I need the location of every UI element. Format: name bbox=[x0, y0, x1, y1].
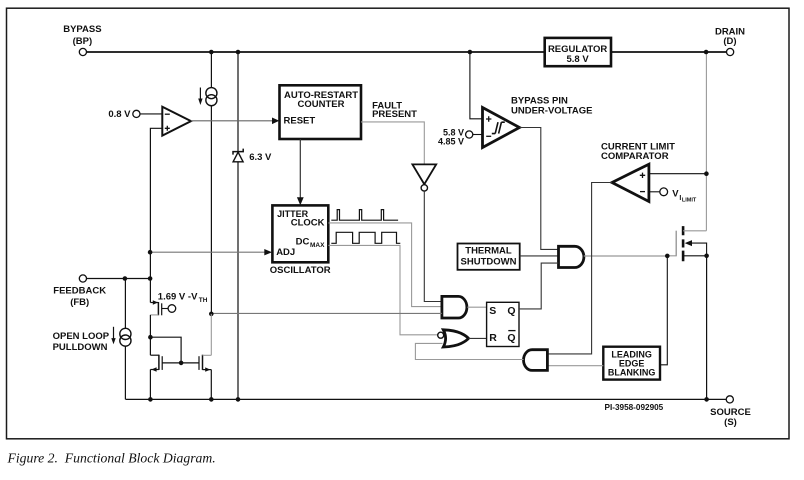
svg-text:OSCILLATOR: OSCILLATOR bbox=[270, 265, 331, 276]
svg-text:OPEN LOOP: OPEN LOOP bbox=[53, 331, 110, 342]
svg-text:LIMIT: LIMIT bbox=[682, 197, 697, 203]
node MOSFET source junction bbox=[704, 254, 709, 259]
label BYPASS PIN UNDER-VOLTAGE bbox=[511, 95, 592, 116]
block oscillator bbox=[270, 205, 331, 275]
svg-text:Q: Q bbox=[507, 305, 515, 317]
node FB enable branch bbox=[209, 312, 214, 317]
wire current limit output bbox=[547, 183, 612, 354]
svg-text:R: R bbox=[489, 332, 497, 344]
wire gate drive to MOSFET bbox=[584, 231, 676, 256]
label FAULT PRESENT bbox=[372, 100, 417, 119]
transistor Q1 output MOSFET bbox=[676, 226, 706, 261]
node mirror gate branches bbox=[148, 335, 153, 340]
node feedback junctions bbox=[123, 276, 128, 281]
wire latch Q to gate-driver AND bbox=[519, 263, 559, 309]
svg-text:V: V bbox=[672, 188, 679, 199]
svg-text:4.85 V: 4.85 V bbox=[438, 137, 464, 147]
wire ADJ input (arrow) bbox=[150, 249, 272, 255]
terminal SOURCE (S) bbox=[710, 396, 751, 428]
wire under-voltage plus input from rail bbox=[470, 52, 483, 119]
wire current limit plus input bbox=[649, 173, 707, 175]
svg-text:6.3 V: 6.3 V bbox=[249, 152, 272, 163]
svg-text:TH: TH bbox=[199, 297, 208, 304]
op-amp 0.8V comparator bbox=[162, 107, 191, 136]
or gate U5 (reset) bbox=[438, 330, 469, 347]
wire bottom source rail bbox=[126, 398, 727, 400]
node bypass rail junctions bbox=[209, 50, 214, 55]
regulator block 5.8 V bbox=[545, 38, 611, 66]
svg-text:COMPARATOR: COMPARATOR bbox=[601, 151, 669, 162]
terminal FEEDBACK (FB) bbox=[53, 275, 150, 308]
svg-text:MAX: MAX bbox=[310, 242, 325, 249]
svg-text:ADJ: ADJ bbox=[276, 247, 295, 258]
node drain junction bbox=[704, 50, 709, 55]
and gate U3 (gate driver) bbox=[559, 246, 584, 267]
svg-text:SHUTDOWN: SHUTDOWN bbox=[461, 256, 517, 267]
node ADJ branch bbox=[148, 250, 153, 255]
transistor Q4 (mirror right) bbox=[181, 314, 211, 400]
wire FB enable to set AND bbox=[211, 312, 442, 314]
op-amp under-voltage comparator bbox=[483, 108, 520, 148]
svg-text:(S): (S) bbox=[724, 417, 737, 428]
terminal 0.8 V bbox=[108, 109, 162, 120]
terminal V ILIMIT bbox=[649, 188, 697, 203]
wire auto-restart to oscillator (arrow down) bbox=[297, 139, 304, 205]
wire MOSFET source down bbox=[706, 256, 708, 400]
svg-text:5.8 V: 5.8 V bbox=[567, 54, 590, 65]
svg-text:COUNTER: COUNTER bbox=[298, 99, 345, 110]
flip-flop latch S/R bbox=[487, 302, 519, 346]
wire thermal shutdown to AND bbox=[520, 255, 559, 257]
svg-text:PULLDOWN: PULLDOWN bbox=[53, 342, 108, 353]
svg-text:0.8 V: 0.8 V bbox=[108, 109, 131, 120]
wire mirror gate tie bbox=[150, 337, 181, 363]
and gate U2 (set) bbox=[442, 296, 467, 318]
op-amp current limit comparator bbox=[612, 164, 649, 201]
svg-text:(FB): (FB) bbox=[70, 297, 89, 308]
svg-text:Figure 2. Functional Block Di: Figure 2. Functional Block Diagram. bbox=[7, 451, 216, 466]
wire inverter output down bbox=[424, 191, 442, 301]
wire comparator output to auto-restart (arrow) bbox=[191, 118, 279, 125]
wire drain vertical bbox=[705, 52, 707, 231]
svg-text:(D): (D) bbox=[723, 36, 736, 47]
waveform clock pulses bbox=[331, 210, 398, 221]
svg-text:BLANKING: BLANKING bbox=[608, 367, 656, 377]
label CURRENT LIMIT COMPARATOR bbox=[601, 142, 675, 163]
wire LEB output to AND bbox=[547, 365, 603, 367]
svg-text:PI-3958-092905: PI-3958-092905 bbox=[605, 403, 664, 412]
and gate U4 (current limit, faces left) bbox=[524, 350, 548, 371]
terminal DRAIN (D) bbox=[715, 26, 745, 55]
svg-text:UNDER-VOLTAGE: UNDER-VOLTAGE bbox=[511, 105, 592, 116]
wire LEB branch bbox=[660, 256, 667, 365]
svg-text:THERMAL: THERMAL bbox=[465, 246, 512, 257]
block auto-restart counter bbox=[280, 85, 362, 139]
label OPEN LOOP PULLDOWN bbox=[53, 331, 110, 353]
wire U4 output loop to OR gate bbox=[415, 343, 523, 359]
svg-text:BYPASS: BYPASS bbox=[63, 24, 101, 35]
zener diode 6.3 V bbox=[233, 52, 272, 399]
node gate / LEB branch bbox=[665, 254, 670, 259]
current source IC2 open loop pulldown bbox=[111, 279, 131, 400]
svg-text:DC: DC bbox=[296, 236, 310, 247]
wire set AND to latch S bbox=[467, 306, 486, 308]
terminal 5.8 V / 4.85 V bbox=[438, 128, 483, 147]
block thermal shutdown bbox=[458, 244, 520, 270]
svg-text:1.69 V -V: 1.69 V -V bbox=[158, 291, 198, 302]
wire dcmax output bbox=[328, 245, 438, 334]
transistor Q2 (feedback sense) bbox=[150, 300, 175, 315]
svg-text:RESET: RESET bbox=[284, 115, 316, 126]
svg-text:CLOCK: CLOCK bbox=[291, 218, 325, 229]
node drain sense junction bbox=[704, 171, 709, 176]
wire under-voltage output to AND bbox=[520, 128, 559, 250]
wire fault present bbox=[361, 122, 424, 165]
waveform dcmax square wave bbox=[331, 232, 400, 243]
svg-text:FEEDBACK: FEEDBACK bbox=[53, 285, 106, 296]
svg-text:S: S bbox=[489, 305, 496, 317]
terminal BYPASS (BP) bbox=[63, 24, 101, 56]
wire left branch down bbox=[149, 315, 151, 355]
wire comparator plus input down-left bbox=[150, 128, 162, 302]
wire bypass top rail bbox=[87, 51, 727, 53]
block leading edge blanking bbox=[603, 347, 660, 380]
wire clock output bbox=[328, 223, 442, 307]
inverter (fault) bbox=[412, 164, 436, 191]
current source IC1 (bypass charge) bbox=[198, 52, 217, 314]
svg-text:Q: Q bbox=[507, 332, 515, 344]
label 1.69 V - VTH bbox=[158, 291, 208, 304]
transistor Q3 (mirror left) bbox=[150, 355, 181, 400]
node source rail junctions bbox=[148, 397, 153, 402]
svg-text:PRESENT: PRESENT bbox=[372, 109, 417, 120]
wire OR to latch R bbox=[469, 337, 487, 339]
svg-text:(BP): (BP) bbox=[73, 36, 93, 47]
